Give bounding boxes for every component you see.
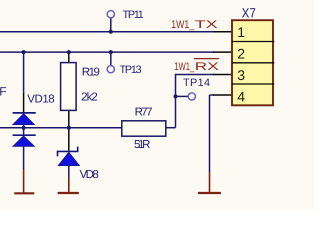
svg-text:51R: 51R — [134, 139, 150, 151]
svg-text:F: F — [0, 85, 7, 99]
svg-text:TX: TX — [195, 19, 219, 31]
svg-text:2k2: 2k2 — [81, 92, 98, 104]
svg-text:RX: RX — [195, 61, 220, 73]
svg-text:R77: R77 — [135, 107, 153, 119]
svg-text:3: 3 — [237, 67, 245, 83]
svg-text:VD8: VD8 — [80, 169, 99, 181]
svg-text:TP13: TP13 — [120, 64, 142, 76]
svg-text:VD18: VD18 — [27, 94, 55, 106]
svg-text:TP11: TP11 — [123, 9, 144, 21]
svg-text:X7: X7 — [242, 5, 256, 20]
svg-text:4: 4 — [237, 88, 245, 104]
svg-text:TP14: TP14 — [183, 77, 210, 89]
svg-text:2: 2 — [237, 46, 245, 62]
svg-text:1: 1 — [237, 24, 245, 40]
svg-text:R19: R19 — [82, 67, 100, 79]
svg-text:1W1_: 1W1_ — [171, 19, 195, 31]
svg-text:1W1_: 1W1_ — [174, 61, 195, 73]
